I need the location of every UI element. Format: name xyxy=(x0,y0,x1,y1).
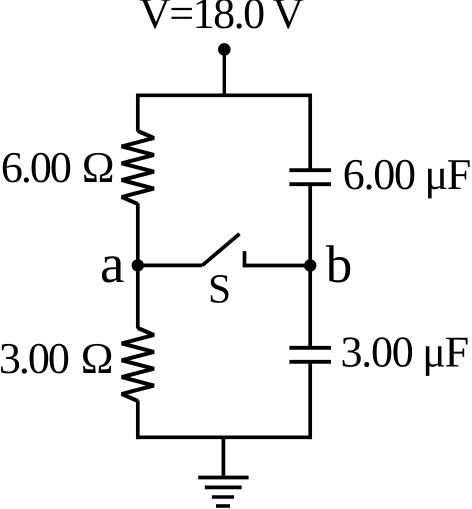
svg-text:S: S xyxy=(208,265,231,311)
svg-text:6.00 μF: 6.00 μF xyxy=(343,150,470,199)
svg-text:3.00 Ω: 3.00 Ω xyxy=(0,334,112,383)
svg-text:b: b xyxy=(326,236,353,294)
svg-text:6.00 Ω: 6.00 Ω xyxy=(1,143,113,192)
svg-text:3.00 μF: 3.00 μF xyxy=(341,328,468,377)
svg-text:a: a xyxy=(100,233,124,294)
svg-text:V=18.0 V: V=18.0 V xyxy=(139,0,304,38)
